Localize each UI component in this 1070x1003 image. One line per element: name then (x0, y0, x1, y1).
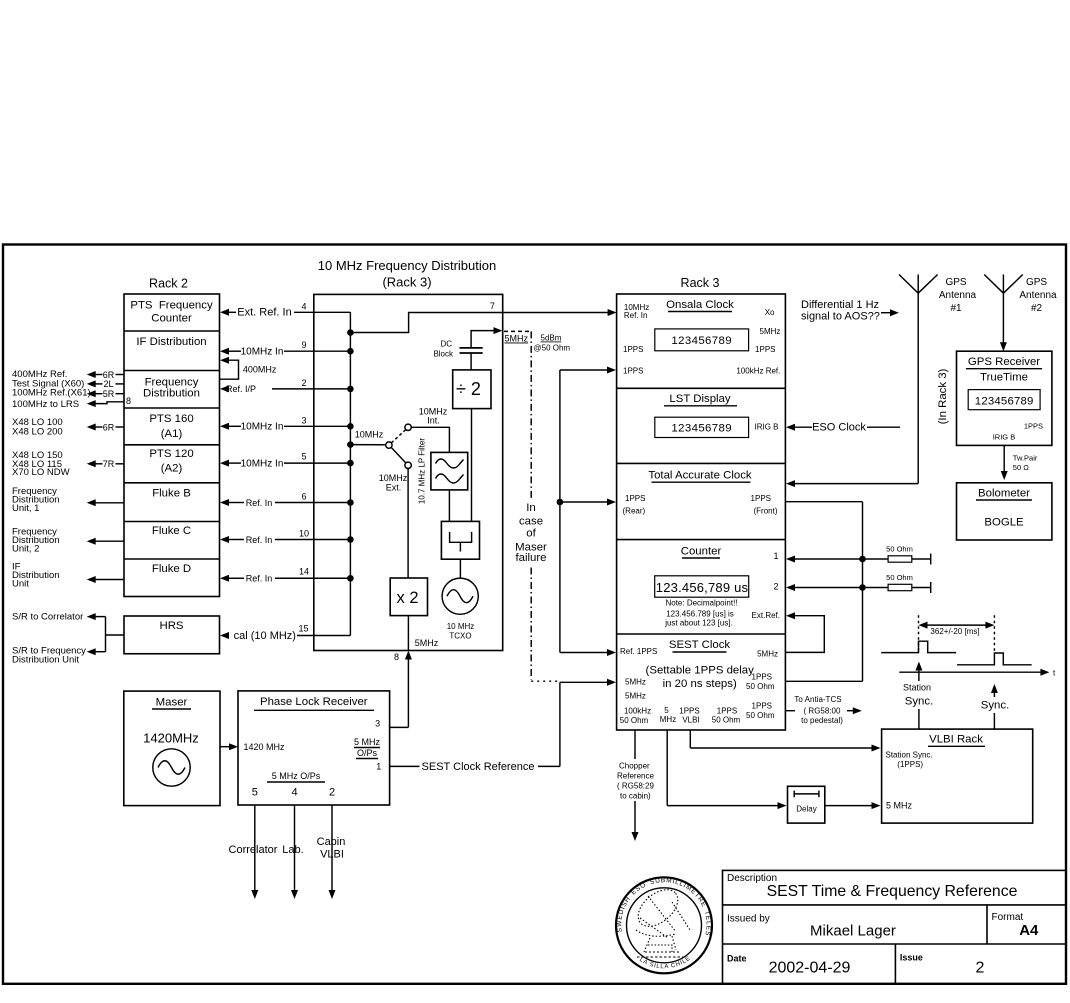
svg-text:IRIG B: IRIG B (993, 433, 1016, 442)
svg-text:(A2): (A2) (161, 462, 183, 474)
svg-text:÷ 2: ÷ 2 (456, 379, 481, 399)
svg-text:100kHz: 100kHz (624, 707, 651, 716)
svg-text:GPS: GPS (1026, 277, 1047, 288)
rack box Rack 3 (617, 294, 786, 730)
svg-text:Fluke C: Fluke C (152, 525, 191, 537)
wire GPS antenna 1 to Total Accurate Clock (786, 275, 918, 488)
wire SEST Clock Reference to 5MHz input (560, 679, 616, 767)
wire pin 4 Ext. Ref. In (220, 301, 350, 318)
svg-text:VLBI: VLBI (320, 849, 344, 861)
junction dots on bus (347, 329, 354, 581)
svg-text:PTS Frequency: PTS Frequency (130, 300, 213, 312)
svg-text:Unit: Unit (12, 579, 29, 590)
wire Station Sync arrow (903, 662, 933, 730)
svg-text:to cabin): to cabin) (620, 791, 651, 800)
rack box VLBI Rack (882, 729, 1033, 823)
wire LP filter to comparator (448, 490, 450, 522)
SEST observatory logo seal (0, 0, 712, 973)
svg-text:50 Ohm: 50 Ohm (620, 716, 649, 725)
svg-text:5: 5 (301, 452, 306, 462)
svg-text:50 Ohm: 50 Ohm (746, 711, 775, 720)
svg-text:Mikael Lager: Mikael Lager (810, 922, 896, 939)
svg-text:X48 LO 200: X48 LO 200 (12, 426, 63, 437)
svg-text:5MHz: 5MHz (760, 327, 781, 336)
net To Antia-TCS output (785, 695, 861, 725)
svg-text:5R: 5R (103, 389, 115, 399)
resistor 50 Ohm termination counter input 1 (786, 545, 931, 565)
svg-text:X70 LO NDW: X70 LO NDW (12, 467, 70, 478)
title block (723, 870, 1067, 983)
svg-text:1PPS: 1PPS (752, 673, 772, 682)
svg-text:50 Ohm: 50 Ohm (886, 545, 913, 554)
svg-text:Station: Station (903, 683, 931, 693)
svg-text:100kHz Ref.: 100kHz Ref. (736, 366, 780, 375)
module Bolometer BOGLE (957, 483, 1052, 540)
svg-text:( RG58:29: ( RG58:29 (617, 782, 654, 791)
svg-text:(1PPS): (1PPS) (897, 760, 923, 769)
svg-text:4: 4 (291, 787, 297, 799)
svg-text:@50 Ohm: @50 Ohm (534, 344, 571, 353)
svg-text:123456789: 123456789 (671, 335, 732, 347)
module SEST Clock (620, 639, 778, 725)
svg-text:Total Accurate Clock: Total Accurate Clock (648, 469, 751, 481)
svg-text:LST Display: LST Display (669, 393, 731, 405)
svg-text:TCXO: TCXO (449, 632, 471, 641)
switch 10MHz Int/Ext (350, 407, 447, 493)
svg-text:Unit, 1: Unit, 1 (12, 503, 39, 514)
svg-text:Station Sync.: Station Sync. (886, 751, 933, 760)
wire 400MHz loop (220, 357, 277, 380)
svg-text:50 Ohm: 50 Ohm (712, 715, 741, 724)
wire 400MHz Ref. output 6R (87, 370, 124, 380)
svg-text:DC: DC (440, 340, 452, 349)
wire pin 14 Ref. In (220, 567, 350, 584)
Rack 3 section divider lines (617, 388, 786, 634)
svg-text:Ref. 1PPS: Ref. 1PPS (620, 647, 657, 656)
svg-text:2L: 2L (103, 379, 113, 389)
svg-text:Cabin: Cabin (317, 836, 346, 848)
svg-text:to pedestal): to pedestal) (801, 716, 843, 725)
svg-text:1: 1 (376, 762, 381, 772)
svg-text:(In Rack 3): (In Rack 3) (937, 368, 949, 424)
svg-text:Counter: Counter (151, 313, 192, 325)
wire HRS outputs S/R (87, 613, 124, 655)
wire Fluke C output to Freq Dist Unit 2 (87, 538, 124, 545)
svg-text:Distribution Unit: Distribution Unit (12, 654, 79, 665)
svg-text:1PPS: 1PPS (752, 702, 772, 711)
wire X48 LO output 7R (87, 459, 124, 469)
net In case of Maser failure dash-dot line (515, 331, 558, 681)
svg-text:cal (10 MHz): cal (10 MHz) (234, 630, 296, 642)
svg-text:5MHz: 5MHz (625, 678, 646, 687)
wire distribution bus (349, 312, 351, 635)
svg-text:Reference: Reference (617, 772, 654, 781)
svg-text:1: 1 (773, 551, 778, 561)
oscillator 10 MHz TCXO (442, 578, 478, 640)
svg-text:4: 4 (301, 301, 306, 311)
svg-text:10: 10 (299, 529, 309, 539)
module HRS box (124, 616, 220, 654)
svg-text:SEST Clock Reference: SEST Clock Reference (422, 761, 535, 773)
svg-text:123456789: 123456789 (671, 423, 732, 435)
svg-text:3: 3 (301, 415, 306, 425)
svg-text:IF Distribution: IF Distribution (136, 336, 206, 348)
svg-text:Date: Date (727, 953, 747, 963)
wire Fluke B output to Freq Dist Unit 1 (87, 499, 124, 506)
wire Sync arrow (981, 684, 1010, 729)
delay box (788, 786, 825, 823)
svg-text:123456789: 123456789 (975, 396, 1034, 408)
module Onsala Clock (623, 299, 780, 375)
svg-text:O/Ps: O/Ps (357, 748, 378, 758)
module LST Display (655, 393, 779, 437)
module Total Accurate Clock (623, 469, 778, 515)
svg-text:10MHz In: 10MHz In (241, 347, 284, 358)
svg-text:1PPS: 1PPS (755, 345, 775, 354)
capacitor DC Block (433, 340, 482, 359)
svg-text:1PPS: 1PPS (625, 494, 645, 503)
svg-text:Int.: Int. (427, 416, 440, 426)
timing diagram time axis (899, 669, 1056, 678)
svg-text:1PPS: 1PPS (751, 494, 771, 503)
svg-text:(Rear): (Rear) (623, 507, 646, 516)
svg-text:Ref. In: Ref. In (624, 311, 648, 320)
wire pin 10 Ref. In (220, 529, 350, 545)
svg-text:10 MHz: 10 MHz (447, 622, 475, 631)
svg-text:1PPS: 1PPS (1024, 422, 1043, 431)
svg-text:8: 8 (394, 652, 399, 662)
svg-text:Ref. In: Ref. In (246, 498, 273, 508)
svg-text:5MHz: 5MHz (625, 692, 646, 701)
svg-text:123.456.789 [us] is: 123.456.789 [us] is (666, 609, 734, 618)
10 MHz distribution unit box (314, 294, 503, 650)
svg-text:VLBI Rack: VLBI Rack (929, 734, 983, 746)
svg-text:Unit, 2: Unit, 2 (12, 544, 39, 555)
svg-text:GPS: GPS (945, 277, 966, 288)
svg-text:6R: 6R (103, 422, 115, 432)
wire 100MHz Ref. output 5R (87, 389, 124, 399)
svg-text:BOGLE: BOGLE (984, 517, 1024, 529)
svg-text:Xo: Xo (765, 308, 775, 317)
svg-text:ESO Clock: ESO Clock (812, 422, 866, 434)
timing diagram dashed verticals (919, 615, 995, 652)
svg-text:50 Ohm: 50 Ohm (886, 573, 913, 582)
wire pin 15 cal (10 MHz) (220, 624, 350, 642)
svg-text:PTS 160: PTS 160 (149, 413, 193, 425)
svg-text:Correlator: Correlator (229, 844, 278, 856)
svg-text:6: 6 (301, 492, 306, 502)
svg-text:1PPS: 1PPS (623, 366, 643, 375)
svg-text:Phase Lock Receiver: Phase Lock Receiver (260, 696, 368, 708)
svg-text:PTS 120: PTS 120 (149, 448, 193, 460)
svg-text:Ext.Ref.: Ext.Ref. (752, 611, 780, 620)
wire GPS Receiver to Bolometer (1001, 445, 1038, 480)
wire Ext.Ref. loop (785, 612, 824, 652)
svg-text:Issued by: Issued by (727, 914, 770, 925)
svg-text:Ref. In: Ref. In (246, 535, 273, 545)
svg-text:8: 8 (126, 396, 131, 406)
svg-text:Lab.: Lab. (282, 844, 303, 856)
svg-text:5: 5 (252, 787, 258, 799)
svg-text:2002-04-29: 2002-04-29 (769, 959, 851, 976)
svg-text:SEST Clock: SEST Clock (669, 639, 730, 651)
svg-text:5MHz: 5MHz (505, 334, 529, 344)
svg-text:Antenna: Antenna (1019, 290, 1057, 301)
svg-text:123.456,789 us: 123.456,789 us (656, 580, 749, 595)
svg-text:To Antia-TCS: To Antia-TCS (794, 695, 841, 704)
wire Delay to VLBI Rack 5 MHz (825, 802, 881, 809)
svg-text:5: 5 (664, 706, 669, 715)
svg-text:Issue: Issue (900, 952, 923, 962)
wire Fluke D output to IF Dist Unit (87, 576, 124, 583)
net Differential 1 Hz signal to AOS (801, 299, 899, 323)
wire pin 3 10MHz In (220, 415, 350, 432)
svg-text:Distribution: Distribution (143, 388, 200, 400)
svg-text:(Settable 1PPS delay: (Settable 1PPS delay (646, 665, 755, 677)
border frame (3, 245, 1066, 984)
svg-text:2: 2 (301, 378, 306, 388)
wire 1PPS Front output net (785, 502, 865, 682)
svg-text:Maser: Maser (156, 697, 188, 709)
svg-text:Rack 2: Rack 2 (149, 277, 188, 291)
svg-text:A4: A4 (1019, 922, 1039, 939)
svg-text:signal to AOS??: signal to AOS?? (801, 311, 880, 323)
svg-text:just about 123 [us].: just about 123 [us]. (664, 618, 733, 627)
svg-text:100MHz to LRS: 100MHz to LRS (12, 399, 79, 410)
wire Chopper Reference output (617, 730, 654, 841)
svg-text:TrueTime: TrueTime (980, 372, 1028, 384)
svg-text:Antenna: Antenna (939, 290, 977, 301)
svg-text:In: In (526, 502, 536, 514)
svg-text:(Front): (Front) (754, 507, 778, 516)
svg-text:2: 2 (976, 959, 985, 976)
svg-text:362+/-20 [ms]: 362+/-20 [ms] (930, 627, 979, 636)
wire Maser 1420MHz to Phase Lock Receiver (220, 743, 238, 750)
svg-text:1PPS: 1PPS (623, 345, 643, 354)
wire X48 LO output 6R (87, 422, 124, 432)
svg-text:10.7 MHz LP Filter: 10.7 MHz LP Filter (418, 438, 427, 504)
module GPS Receiver TrueTime (937, 351, 1052, 445)
wire switch Int contact to LP filter (411, 427, 449, 452)
antenna GPS Antenna #2 (984, 275, 1057, 352)
svg-text:Note: Decimalpoint!!: Note: Decimalpoint!! (665, 599, 737, 608)
svg-text:Differential 1 Hz: Differential 1 Hz (801, 299, 879, 311)
svg-text:MHz: MHz (660, 715, 676, 724)
timing diagram pulse 2 (957, 653, 1032, 665)
wire SEST 5 MHz to Delay (667, 730, 786, 809)
svg-text:x 2: x 2 (396, 589, 418, 607)
svg-text:Ref. In: Ref. In (246, 574, 273, 584)
Rack 2 section divider lines (124, 331, 220, 559)
module rack box Rack 2 (124, 294, 220, 597)
svg-text:5 MHz O/Ps: 5 MHz O/Ps (272, 771, 321, 781)
svg-text:400MHz: 400MHz (243, 364, 277, 374)
svg-text:7: 7 (490, 301, 495, 311)
svg-text:14: 14 (299, 567, 309, 577)
wire PLR output 5 to Correlator (229, 805, 278, 899)
svg-text:(A1): (A1) (161, 428, 183, 440)
svg-text:GPS Receiver: GPS Receiver (968, 356, 1040, 368)
svg-text:50 Ω: 50 Ω (1013, 463, 1029, 472)
svg-text:Rack 3: Rack 3 (681, 276, 720, 290)
svg-text:#1: #1 (950, 303, 962, 314)
module Phase Lock Receiver (238, 691, 390, 805)
svg-text:10MHz In: 10MHz In (241, 422, 284, 433)
svg-text:9: 9 (301, 340, 306, 350)
svg-text:2: 2 (329, 787, 335, 799)
svg-text:failure: failure (515, 552, 546, 564)
wire pin 5 10MHz In (220, 452, 350, 470)
antenna GPS Antenna #1 (899, 275, 977, 315)
svg-text:5dBm: 5dBm (541, 334, 562, 343)
svg-text:5MHz: 5MHz (415, 638, 439, 648)
svg-text:Sync.: Sync. (905, 696, 934, 708)
svg-text:10 MHz Frequency Distribution: 10 MHz Frequency Distribution (318, 258, 496, 273)
svg-text:1420MHz: 1420MHz (143, 731, 199, 746)
module Maser (124, 691, 220, 806)
wire pin 9 10MHz In (220, 340, 350, 357)
svg-text:Onsala Clock: Onsala Clock (666, 299, 734, 311)
module Counter (655, 546, 780, 628)
svg-text:Tw.Pair: Tw.Pair (1013, 454, 1038, 463)
svg-text:(Rack 3): (Rack 3) (382, 274, 431, 289)
svg-text:Counter: Counter (681, 546, 722, 558)
svg-text:SEST Time & Frequency Referenc: SEST Time & Frequency Reference (767, 883, 1018, 900)
svg-text:5MHz: 5MHz (757, 649, 778, 658)
svg-text:( RG58:00: ( RG58:00 (804, 706, 841, 715)
wire SEST 1PPS VLBI to VLBI Rack (690, 730, 880, 752)
svg-text:10MHz: 10MHz (355, 430, 384, 440)
svg-text:1420 MHz: 1420 MHz (244, 742, 286, 752)
timing diagram interval arrow 362 ms (919, 622, 995, 636)
net ESO Clock input (786, 422, 900, 434)
wire PLR output 4 to Lab (282, 805, 303, 899)
svg-text:1PPS: 1PPS (717, 707, 737, 716)
wire pin 7 output to Rack 3 (350, 301, 616, 333)
svg-text:of: of (526, 528, 536, 540)
resistor 50 Ohm termination counter input 2 (786, 573, 931, 593)
svg-text:Bolometer: Bolometer (978, 488, 1030, 500)
wire PLR output 2 to Cabin VLBI (317, 805, 346, 899)
wire pin 2 Ref. I/P (220, 378, 350, 394)
svg-text:Ext.: Ext. (386, 483, 402, 493)
svg-text:2: 2 (773, 582, 778, 592)
svg-text:HRS: HRS (159, 620, 183, 632)
svg-text:5 MHz: 5 MHz (886, 801, 913, 811)
svg-text:Delay: Delay (796, 805, 816, 814)
svg-text:S/R to Correlator: S/R to Correlator (12, 612, 83, 623)
wire comparator to TCXO (459, 559, 461, 578)
comparator box (441, 521, 479, 559)
svg-text:in 20 ns steps): in 20 ns steps) (663, 678, 737, 690)
wire 5MHz inside dist box to pin 8 (390, 638, 439, 728)
wire Test Signal output 2L (87, 379, 124, 389)
svg-text:1PPS: 1PPS (679, 707, 699, 716)
svg-text:10MHz: 10MHz (379, 473, 408, 483)
svg-text:#2: #2 (1031, 303, 1043, 314)
svg-text:Chopper: Chopper (619, 762, 650, 771)
divider /2 box (453, 353, 491, 521)
svg-text:Sync.: Sync. (981, 700, 1010, 712)
multiplier x 2 box (390, 469, 427, 651)
wire 100MHz to LRS output (87, 400, 124, 407)
svg-text:100MHz Ref.(X61): 100MHz Ref.(X61) (12, 388, 91, 399)
svg-text:Ref. I/P: Ref. I/P (226, 384, 256, 394)
svg-text:Block: Block (433, 350, 454, 359)
svg-text:VLBI: VLBI (682, 715, 699, 724)
svg-text:Fluke B: Fluke B (152, 487, 191, 499)
svg-text:15: 15 (298, 624, 308, 634)
svg-text:Fluke D: Fluke D (152, 563, 191, 575)
wire 1PPS net to Rack 3 inputs (557, 367, 616, 657)
wire pin 6 Ref. In (220, 492, 350, 508)
svg-text:3: 3 (375, 719, 380, 729)
svg-text:5 MHz: 5 MHz (354, 737, 381, 747)
svg-text:IRIG B: IRIG B (755, 423, 779, 432)
net 5MHz 5dBm @50 Ohm labels (504, 331, 570, 352)
net SEST Clock Reference (390, 761, 560, 773)
10.7 MHz LP Filter box (418, 438, 468, 504)
svg-text:10MHz In: 10MHz In (241, 458, 284, 469)
svg-text:case: case (519, 516, 543, 528)
svg-text:Ext. Ref. In: Ext. Ref. In (237, 307, 291, 319)
svg-text:50 Ohm: 50 Ohm (746, 682, 775, 691)
svg-text:7R: 7R (103, 459, 115, 469)
wire 5MHz output of distribution box (471, 327, 502, 348)
timing diagram pulse 1 (881, 641, 956, 652)
